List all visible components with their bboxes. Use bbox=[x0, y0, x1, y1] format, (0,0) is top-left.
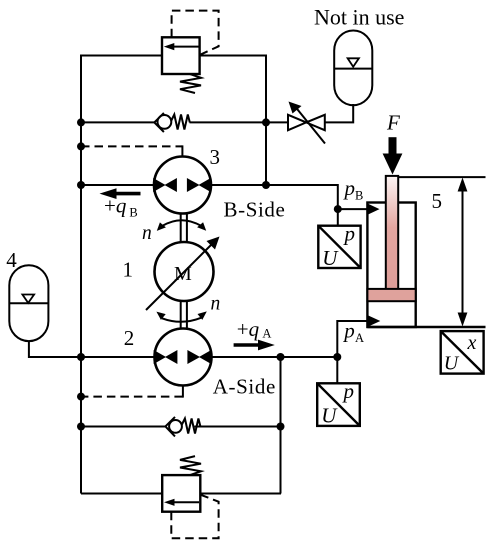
flow direction arrow +qB (pointing left) bbox=[113, 192, 141, 196]
accumulator (not in use) gas triangle bbox=[348, 58, 359, 67]
svg-text:B-Side: B-Side bbox=[224, 198, 286, 222]
check valve CV2 ball bbox=[169, 420, 182, 433]
svg-text:x: x bbox=[467, 332, 477, 354]
node: junction dot left/B-line bbox=[77, 181, 85, 189]
check valve CV1 ball bbox=[158, 115, 172, 129]
cylinder 5 piston rod bbox=[386, 176, 398, 291]
node: junction dot left/dashed-A bbox=[77, 393, 85, 401]
wire: top check valve line (right segment to throttle) bbox=[190, 121, 289, 123]
shaft between pump 3 and motor M bbox=[181, 213, 187, 243]
wire: accumulator 4 stub to A-line junction bbox=[29, 342, 81, 358]
wire: top check valve line (left segment) bbox=[80, 121, 155, 123]
svg-text:1: 1 bbox=[123, 258, 134, 282]
svg-text:U: U bbox=[321, 404, 338, 428]
relief valve RV2 internal flow arrow bbox=[169, 501, 199, 503]
accumulator 4 separator line bbox=[9, 302, 48, 304]
svg-text:A-Side: A-Side bbox=[213, 375, 276, 399]
pump unit 2 (A-side) circle bbox=[155, 329, 212, 386]
wire: B-side pump line (right, to pB corner) bbox=[211, 185, 338, 209]
check valve CV2 spring bbox=[182, 419, 201, 434]
pump unit 3 (B-side) circle bbox=[154, 157, 211, 214]
wire: pB junction to cylinder port B bbox=[338, 208, 368, 210]
node: junction dot bottom-check/right-vertical bbox=[277, 423, 285, 431]
node: junction dot B-line/relief-branch bbox=[262, 181, 270, 189]
svg-text:2: 2 bbox=[124, 326, 135, 350]
node: junction dot left/dashed-line bbox=[77, 142, 85, 150]
svg-text:5: 5 bbox=[432, 189, 443, 213]
relief valve RV1 internal flow arrow bbox=[169, 46, 199, 48]
node: junction dot check-line/relief-branch bbox=[262, 118, 270, 126]
load force arrow F bbox=[389, 137, 397, 156]
svg-text:+qB: +qB bbox=[104, 194, 138, 220]
wire: dashed drain line of B-side pump bbox=[81, 145, 182, 147]
wire: pA junction up and right to cylinder port A bbox=[337, 321, 368, 357]
pump unit 2 flow triangles (left bowtie) bbox=[154, 350, 166, 364]
shaft between motor M and pump 2 bbox=[181, 301, 187, 330]
svg-text:M: M bbox=[174, 263, 192, 285]
relief valve RV1 spring bbox=[180, 74, 201, 93]
svg-text:n: n bbox=[142, 223, 152, 244]
cylinder 5 piston bbox=[367, 289, 415, 301]
accumulator 4 gas triangle bbox=[22, 295, 34, 303]
svg-text:p: p bbox=[342, 379, 355, 403]
check valve CV1 spring bbox=[171, 115, 190, 130]
accumulator (not in use) shell bbox=[334, 31, 372, 106]
pump unit 3 flow triangles (left bowtie) bbox=[153, 178, 165, 192]
rotation arrow (lower, n) bbox=[162, 318, 201, 322]
wire: top line from left vertical to relief valve RV1 bbox=[80, 55, 162, 57]
svg-text:pA: pA bbox=[342, 318, 364, 345]
relief valve RV1 (top) body bbox=[162, 37, 200, 74]
motor M (1) circle bbox=[155, 242, 214, 301]
wire: A-side pump line (left, to left vertical) bbox=[80, 356, 155, 358]
motor M variable displacement arrow bbox=[146, 243, 214, 311]
wire: A-side pump line (right, to pA junction) bbox=[211, 356, 337, 358]
wire: bottom line left vertical corner to relief valve RV2 bbox=[81, 493, 162, 495]
rotation arrow (upper, n) bbox=[162, 220, 201, 226]
svg-text:U: U bbox=[444, 352, 460, 374]
stroke measurement double arrow bbox=[462, 184, 464, 320]
wire: bottom line RV2 to right vertical bbox=[200, 493, 281, 495]
node: junction dot pA branch bbox=[333, 353, 341, 361]
svg-text:+qA: +qA bbox=[237, 317, 272, 341]
accumulator 4 shell bbox=[9, 265, 48, 341]
position sensor box x bbox=[441, 331, 484, 374]
throttle valve adjustment arrow bbox=[296, 107, 326, 144]
pressure sensor box pB bbox=[318, 226, 360, 268]
node: junction dot A-line/right-vertical bbox=[277, 353, 285, 361]
relief valve RV2 spring bbox=[180, 456, 201, 475]
wire: right vertical between A-line and bottom line bbox=[280, 357, 282, 494]
wire: top line from RV1 to right corner, down to B-line bbox=[200, 56, 266, 186]
wire: pA junction down to pressure sensor bbox=[336, 357, 338, 383]
node: junction dot left/A-line bbox=[77, 353, 85, 361]
cylinder 5 top reference line bbox=[397, 176, 485, 178]
pressure sensor box pA bbox=[317, 383, 360, 426]
cylinder 5 barrel bbox=[367, 203, 415, 328]
wire: bottom check valve line bbox=[80, 426, 166, 428]
node: junction dot pB branch bbox=[334, 205, 342, 213]
flow direction arrow +qA (pointing right) bbox=[234, 343, 261, 347]
relief valve RV1 dashed pilot line bbox=[172, 11, 219, 55]
svg-text:n: n bbox=[211, 293, 221, 314]
svg-text:U: U bbox=[322, 246, 339, 270]
relief valve RV2 dashed pilot line bbox=[171, 495, 218, 539]
check valve CV1 (top) seat bbox=[154, 113, 164, 132]
wire: throttle to accumulator stub bbox=[325, 104, 354, 122]
node: junction dot left/check-line bbox=[77, 118, 85, 126]
svg-text:3: 3 bbox=[210, 145, 221, 169]
cylinder port B arrow bbox=[368, 204, 380, 215]
svg-text:pB: pB bbox=[343, 176, 364, 202]
cylinder port A arrow bbox=[368, 316, 380, 327]
svg-text:4: 4 bbox=[6, 248, 17, 272]
svg-text:p: p bbox=[343, 222, 356, 246]
throttle valve (bleed-off) bowtie bbox=[288, 115, 325, 130]
check valve CV2 (bottom) seat bbox=[165, 417, 175, 437]
svg-text:F: F bbox=[386, 111, 400, 135]
wire: dashed drain line of A-side pump bbox=[81, 396, 183, 398]
node: junction dot left/bottom-check-line bbox=[77, 423, 85, 431]
pump unit 3 flow triangles (right bowtie) bbox=[187, 178, 200, 192]
wire: bottom check valve line right segment bbox=[195, 426, 282, 428]
wire: B-side pump line (left, to left vertical) bbox=[80, 184, 155, 186]
relief valve RV2 (bottom) body bbox=[162, 475, 200, 512]
wire: left vertical supply line bbox=[80, 56, 82, 494]
svg-text:Not in use: Not in use bbox=[314, 5, 404, 30]
wire: pB junction down to pressure sensor bbox=[337, 209, 339, 226]
cylinder 5 bottom reference line bbox=[367, 326, 485, 328]
pump unit 2 flow triangles (right bowtie) bbox=[187, 350, 200, 364]
accumulator (not in use) separator line bbox=[334, 68, 372, 70]
